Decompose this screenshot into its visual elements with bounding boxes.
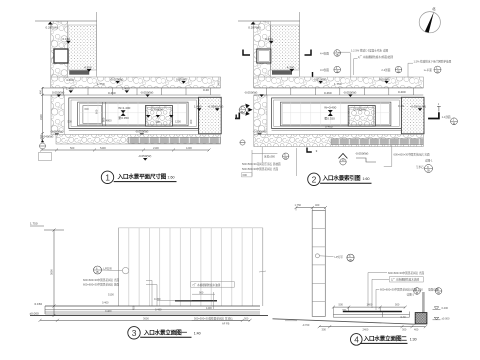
svg-text:入口水景立面图二: 入口水景立面图二 bbox=[363, 335, 408, 343]
svg-text:500: 500 bbox=[339, 303, 344, 307]
svg-text:1-1剖面: 1-1剖面 bbox=[442, 115, 451, 119]
wall top dim bbox=[332, 303, 407, 318]
svg-text:JB: JB bbox=[452, 121, 455, 125]
wall lower lines bbox=[333, 312, 409, 318]
lamp callout bbox=[94, 266, 129, 274]
svg-text:0.040(W): 0.040(W) bbox=[41, 134, 53, 138]
level marker 0.287W bbox=[248, 22, 260, 30]
callout L-plan bbox=[424, 66, 441, 74]
svg-text:-0.010(W): -0.010(W) bbox=[110, 77, 123, 81]
svg-text:JB: JB bbox=[284, 156, 287, 160]
svg-text:0.287(W): 0.287(W) bbox=[46, 26, 58, 30]
svg-text:JB: JB bbox=[335, 70, 338, 74]
level marker 4.300 bbox=[84, 65, 92, 72]
survey circle marker bbox=[240, 140, 245, 145]
walkway labels bbox=[313, 77, 390, 86]
pebble wing band bbox=[254, 21, 271, 87]
svg-text:0.400: 0.400 bbox=[442, 306, 449, 310]
water level hourglass W0.400 bbox=[118, 106, 130, 120]
centre pebble square bbox=[348, 106, 375, 126]
svg-text:±0.000: ±0.000 bbox=[442, 316, 450, 320]
right level symbols bbox=[433, 306, 450, 321]
right section bracket and bubble bbox=[235, 106, 246, 118]
svg-text:5400: 5400 bbox=[100, 146, 106, 150]
svg-text:LP灯带: LP灯带 bbox=[104, 266, 113, 270]
steps band bbox=[272, 71, 292, 75]
planter square bbox=[54, 49, 68, 63]
svg-text:500×500×30荔枝面花岗岩 压顶石: 500×500×30荔枝面花岗岩 压顶石 bbox=[194, 316, 233, 320]
svg-text:-0.700: -0.700 bbox=[302, 323, 310, 327]
level marker 0.287W bbox=[46, 22, 58, 30]
survey circle marker bbox=[40, 140, 46, 149]
svg-text:500: 500 bbox=[70, 146, 75, 150]
title 4 bbox=[351, 334, 417, 346]
svg-text:0.40: 0.40 bbox=[401, 315, 407, 319]
svg-text:600×600×30中国黑花岗岩 光面: 600×600×30中国黑花岗岩 光面 bbox=[388, 271, 424, 275]
svg-text:4: 4 bbox=[354, 334, 359, 344]
svg-text:2: 2 bbox=[312, 174, 317, 184]
level marker 0.150 bbox=[63, 37, 71, 44]
wall top line bbox=[35, 20, 97, 22]
svg-text:详图-1: 详图-1 bbox=[407, 293, 415, 297]
svg-text:400: 400 bbox=[414, 328, 419, 332]
pebble wing band bbox=[51, 21, 68, 87]
svg-text:400: 400 bbox=[217, 80, 221, 85]
svg-text:-0.050(W): -0.050(W) bbox=[343, 91, 356, 95]
svg-text:0.00(W): 0.00(W) bbox=[176, 77, 187, 81]
svg-text:L+平面: L+平面 bbox=[424, 68, 433, 72]
svg-text:1:40: 1:40 bbox=[194, 331, 201, 335]
bottom dimension line bbox=[39, 317, 252, 322]
title 3 bbox=[128, 327, 201, 339]
section flag 3 bottom bbox=[307, 148, 318, 154]
svg-text:泵0.350: 泵0.350 bbox=[118, 115, 129, 120]
svg-text:1.750: 1.750 bbox=[30, 222, 38, 226]
svg-text:入口水景平面尺寸图: 入口水景平面尺寸图 bbox=[117, 173, 167, 181]
basin outer rectangle bbox=[272, 98, 402, 129]
wing wall right edge line bbox=[96, 12, 98, 77]
pool bottom labels bbox=[325, 125, 333, 129]
svg-text:-0.050(W): -0.050(W) bbox=[244, 91, 257, 95]
svg-text:1200: 1200 bbox=[175, 120, 181, 124]
svg-text:1400: 1400 bbox=[367, 303, 373, 307]
svg-text:LP灯带: LP灯带 bbox=[335, 255, 344, 259]
basin bottom edge lines bbox=[69, 129, 199, 131]
svg-text:-0.750(W): -0.750(W) bbox=[353, 108, 366, 112]
svg-text:-0.050(W): -0.050(W) bbox=[253, 130, 266, 134]
svg-text:300: 300 bbox=[244, 317, 249, 321]
svg-text:2-2剖面: 2-2剖面 bbox=[381, 68, 390, 72]
spec leader texts bbox=[83, 278, 157, 306]
wall coping lines bbox=[45, 306, 260, 314]
svg-text:1200: 1200 bbox=[186, 146, 192, 150]
svg-text:JB: JB bbox=[335, 53, 338, 57]
boxed timber note bbox=[191, 282, 235, 288]
svg-text:0.40: 0.40 bbox=[203, 88, 209, 92]
basin bottom edge lines bbox=[272, 129, 402, 131]
title 2 bbox=[308, 173, 372, 185]
svg-text:-0.350(L/W): -0.350(L/W) bbox=[410, 104, 426, 108]
spec notes bottom left bbox=[242, 162, 282, 177]
svg-text:0.40: 0.40 bbox=[398, 104, 404, 108]
lower labels strip bbox=[253, 130, 266, 136]
bottom pebble band bbox=[56, 135, 221, 145]
sloped ground bbox=[273, 319, 416, 327]
svg-text:0.400: 0.400 bbox=[398, 90, 406, 94]
level marker -0.010W bbox=[254, 79, 267, 86]
level marker 4.300 bbox=[287, 65, 295, 72]
svg-text:3600: 3600 bbox=[50, 269, 54, 275]
svg-text:4-4剖面: 4-4剖面 bbox=[320, 52, 329, 56]
column bbox=[312, 210, 325, 316]
svg-text:7厂 木格栅刷防腐木油漆: 7厂 木格栅刷防腐木油漆 bbox=[192, 283, 221, 287]
svg-text:300: 300 bbox=[322, 328, 327, 332]
svg-text:泵0.350: 泵0.350 bbox=[324, 116, 335, 121]
svg-text:2100: 2100 bbox=[153, 146, 159, 150]
svg-text:详图-1: 详图-1 bbox=[425, 158, 433, 162]
svg-text:1厂 木格栅刷防腐木油漆: 1厂 木格栅刷防腐木油漆 bbox=[391, 278, 420, 282]
svg-text:JB: JB bbox=[349, 258, 352, 262]
walkway right dim bbox=[217, 80, 221, 85]
paving stipple area bbox=[271, 25, 300, 70]
svg-text:-0.350(L/W): -0.350(L/W) bbox=[208, 104, 224, 108]
top walkway pebble band bbox=[51, 77, 221, 88]
svg-text:1:30: 1:30 bbox=[410, 338, 417, 342]
svg-text:500×500×30花岗岩压顶石 荔枝面: 500×500×30花岗岩压顶石 荔枝面 bbox=[242, 162, 281, 166]
svg-text:3: 3 bbox=[132, 328, 137, 338]
svg-text:JB: JB bbox=[415, 291, 418, 295]
right end step note bbox=[355, 152, 376, 162]
right spec note bbox=[384, 145, 433, 173]
svg-text:-0.010(W): -0.010(W) bbox=[313, 77, 326, 81]
bench thick line bbox=[343, 308, 402, 312]
walkway labels bbox=[66, 77, 187, 86]
svg-text:4800: 4800 bbox=[106, 119, 112, 123]
left sub rectangle bbox=[83, 106, 102, 124]
svg-text:400: 400 bbox=[38, 89, 42, 94]
slat wall edges bbox=[119, 228, 263, 306]
svg-text:入口水景立面图一: 入口水景立面图一 bbox=[143, 328, 188, 336]
bottom dimension line bbox=[318, 325, 427, 331]
planter square double border bbox=[257, 49, 271, 63]
svg-text:-0.050(W): -0.050(W) bbox=[135, 130, 148, 134]
svg-text:JB: JB bbox=[397, 70, 400, 74]
svg-text:600×600×30中国黑花岗岩 光面: 600×600×30中国黑花岗岩 光面 bbox=[394, 153, 430, 157]
slat wall top rail bbox=[119, 227, 263, 229]
left height dim bbox=[30, 222, 64, 317]
svg-text:600×600×30中国黑花岗岩 烧面: 600×600×30中国黑花岗岩 烧面 bbox=[83, 282, 119, 286]
top walkway pebble band bbox=[254, 77, 424, 88]
svg-text:入口水景索引图: 入口水景索引图 bbox=[322, 174, 361, 182]
coping strip under walkway bbox=[42, 87, 220, 97]
edge tick bbox=[259, 271, 266, 272]
inner pool double border bbox=[281, 102, 391, 126]
svg-text:北: 北 bbox=[432, 6, 436, 11]
svg-text:4.200: 4.200 bbox=[66, 78, 74, 82]
svg-text:-0.050(W): -0.050(W) bbox=[140, 91, 153, 95]
lamp circle on column bbox=[315, 254, 354, 262]
svg-text:JB: JB bbox=[96, 270, 99, 274]
svg-text:3-3剖面: 3-3剖面 bbox=[320, 68, 329, 72]
svg-text:-0.050(W): -0.050(W) bbox=[138, 154, 151, 158]
svg-text:0.460: 0.460 bbox=[325, 125, 333, 129]
wing wall right edge line bbox=[299, 12, 301, 77]
svg-text:1.750: 1.750 bbox=[334, 82, 342, 86]
svg-text:-0.050(W): -0.050(W) bbox=[355, 152, 368, 156]
slat verticals bbox=[129, 228, 253, 306]
ground line bbox=[30, 315, 268, 317]
bottom pebble band bbox=[254, 135, 423, 147]
svg-text:4.300: 4.300 bbox=[287, 65, 295, 69]
section elbow right bbox=[305, 50, 312, 56]
bottom dimension line bbox=[40, 146, 211, 161]
left dimension line bbox=[41, 87, 44, 140]
svg-text:1: 1 bbox=[105, 172, 110, 182]
leader texts top right bbox=[338, 49, 452, 78]
water level hourglass bbox=[324, 106, 336, 121]
svg-text:1.400: 1.400 bbox=[122, 87, 130, 91]
steps band bbox=[70, 71, 90, 75]
svg-text:300: 300 bbox=[402, 328, 407, 332]
column top dim bbox=[295, 203, 327, 210]
svg-text:-0.050(W): -0.050(W) bbox=[50, 130, 63, 134]
view direction marker bbox=[236, 104, 252, 119]
pool floor grid bbox=[79, 102, 186, 126]
svg-text:1厂 木格栅刷防腐木(饰面)处理: 1厂 木格栅刷防腐木(饰面)处理 bbox=[358, 55, 393, 59]
svg-text:1.400: 1.400 bbox=[194, 104, 202, 108]
svg-text:JB: JB bbox=[427, 169, 430, 173]
inner pool double border bbox=[78, 102, 188, 126]
section elbow left bbox=[243, 50, 250, 56]
svg-text:0.150: 0.150 bbox=[63, 37, 71, 41]
wall small dims bbox=[35, 291, 216, 313]
svg-text:1.750: 1.750 bbox=[97, 82, 105, 86]
svg-text:3300: 3300 bbox=[39, 114, 43, 120]
svg-text:1:60: 1:60 bbox=[363, 177, 370, 181]
svg-text:±0.000: ±0.000 bbox=[30, 311, 39, 315]
leader water level note bbox=[252, 147, 297, 176]
section flag 3 top bbox=[313, 72, 322, 81]
svg-text:1:2% 找坡排水下荷兰网防护处理: 1:2% 找坡排水下荷兰网防护处理 bbox=[414, 60, 452, 64]
svg-text:600: 600 bbox=[243, 173, 248, 177]
svg-text:0.287(W): 0.287(W) bbox=[248, 26, 260, 30]
svg-text:JB: JB bbox=[437, 291, 440, 295]
svg-text:3600: 3600 bbox=[143, 317, 149, 321]
svg-text:400: 400 bbox=[39, 134, 43, 139]
right stipple square bbox=[194, 97, 223, 134]
svg-text:2400: 2400 bbox=[363, 328, 369, 332]
title 1 bbox=[101, 171, 176, 183]
lower labels strip bbox=[41, 130, 148, 139]
svg-text:-0.750(W): -0.750(W) bbox=[150, 108, 163, 112]
svg-text:1.400: 1.400 bbox=[66, 87, 74, 91]
planter crosshatch square bbox=[415, 292, 427, 324]
level marker 0.150 bbox=[265, 37, 273, 44]
wall top line bbox=[238, 20, 300, 22]
up arrow marker with bubble bbox=[339, 154, 348, 166]
svg-text:0.460: 0.460 bbox=[108, 91, 116, 95]
svg-text:500×500×30中国黑花岗岩 光面: 500×500×30中国黑花岗岩 光面 bbox=[242, 167, 278, 171]
svg-text:0.150: 0.150 bbox=[35, 302, 43, 306]
callout 4-4 bbox=[320, 49, 341, 57]
svg-text:汀步石: 汀步石 bbox=[416, 165, 424, 169]
svg-text:0.150: 0.150 bbox=[265, 37, 273, 41]
level marker -0.010W bbox=[51, 79, 64, 86]
svg-text:0.460: 0.460 bbox=[324, 91, 332, 95]
north arrow bbox=[419, 6, 440, 33]
svg-text:1:2.5% 找坡C-3混凝土布水 详图: 1:2.5% 找坡C-3混凝土布水 详图 bbox=[351, 49, 388, 53]
svg-text:400: 400 bbox=[315, 203, 320, 207]
svg-text:5100: 5100 bbox=[108, 292, 114, 296]
svg-text:AF FB: AF FB bbox=[222, 321, 230, 325]
centre pebble square bbox=[145, 106, 173, 126]
svg-text:0.400: 0.400 bbox=[102, 300, 109, 304]
dims inside pool bbox=[68, 119, 194, 125]
pool floor grid bbox=[282, 102, 389, 126]
left pebble column bbox=[51, 95, 64, 135]
svg-text:1:60: 1:60 bbox=[168, 176, 175, 180]
svg-text:水位±380: 水位±380 bbox=[264, 154, 275, 158]
svg-text:JB: JB bbox=[436, 70, 439, 74]
svg-text:0.050(W): 0.050(W) bbox=[52, 91, 64, 95]
left pebble column bbox=[254, 95, 267, 135]
callout 2-2 bbox=[381, 66, 401, 74]
svg-text:4.300: 4.300 bbox=[84, 65, 92, 69]
coping strip under walkway bbox=[244, 88, 423, 97]
bench thick line bbox=[175, 300, 217, 302]
coping spec note right bbox=[192, 316, 242, 325]
svg-text:300: 300 bbox=[189, 119, 193, 124]
paver hatch band bbox=[331, 139, 423, 145]
svg-text:W≈1.400: W≈1.400 bbox=[118, 106, 130, 110]
svg-text:600×600×30中国黑花岗岩 光面: 600×600×30中国黑花岗岩 光面 bbox=[83, 278, 119, 282]
callout 3-3 bbox=[320, 66, 341, 74]
svg-text:0.00(W): 0.00(W) bbox=[379, 77, 390, 81]
paving stipple area bbox=[68, 25, 97, 70]
pool divider bbox=[102, 102, 106, 126]
basin outer rectangle bbox=[69, 98, 199, 129]
right section bracket and bubble bbox=[428, 102, 457, 125]
paver hatch band bbox=[128, 137, 221, 143]
right stipple square bbox=[398, 97, 426, 134]
svg-text:500: 500 bbox=[68, 120, 73, 124]
spec notes with nested brackets bbox=[368, 271, 442, 310]
svg-text:500: 500 bbox=[395, 303, 400, 307]
svg-text:W≈0.400: W≈0.400 bbox=[324, 106, 336, 110]
svg-text:600: 600 bbox=[85, 107, 90, 111]
small legend box bbox=[39, 153, 52, 161]
svg-text:1.750: 1.750 bbox=[295, 203, 302, 207]
svg-text:900: 900 bbox=[156, 120, 161, 124]
